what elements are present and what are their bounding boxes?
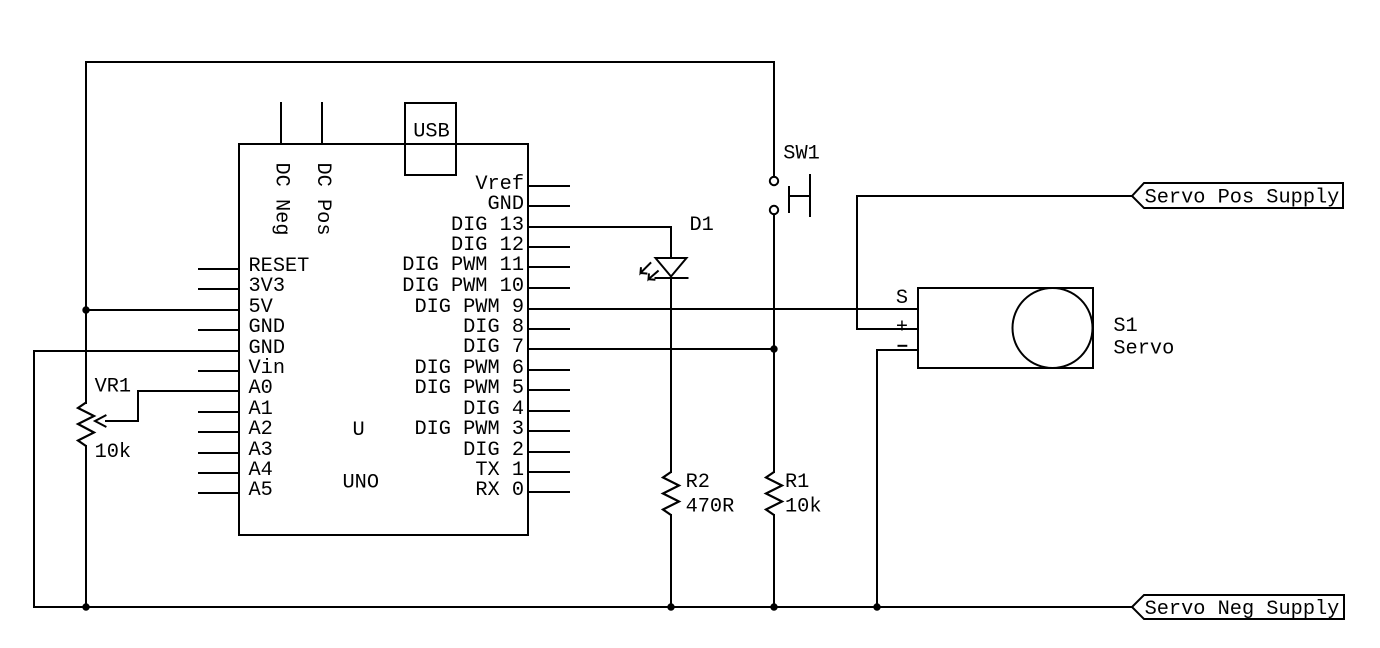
wire bottom rail (Servo Neg net)	[34, 606, 1132, 608]
pin stub A2	[199, 431, 239, 433]
pin stub A5	[199, 492, 239, 494]
pin stub RX 0	[528, 491, 569, 493]
switch SW1 stem	[789, 195, 810, 197]
wire to Servo Pos Supply flag	[857, 195, 1132, 197]
wire VR1 wiper horizontal	[106, 420, 138, 422]
junction dot VR1 bottom rail	[82, 603, 89, 610]
svg-text:DIG PWM 10: DIG PWM 10	[402, 275, 524, 298]
LED D1 emission arrow 1	[641, 263, 651, 273]
switch SW1 actuator bar	[809, 175, 811, 216]
svg-text:USB: USB	[413, 121, 450, 144]
pin stub DIG PWM 5	[528, 389, 569, 391]
pin stub DIG PWM 3	[528, 430, 569, 432]
svg-text:DIG PWM 5: DIG PWM 5	[414, 377, 524, 400]
wire VR1 bottom lead	[85, 446, 87, 607]
pin stub DIG 4	[528, 410, 569, 412]
LED D1 triangle	[656, 258, 687, 277]
svg-text:DC Neg: DC Neg	[270, 163, 293, 236]
pin stub DIG PWM 11	[528, 266, 569, 268]
svg-text:UNO: UNO	[343, 472, 380, 495]
svg-text:10k: 10k	[785, 496, 822, 519]
svg-text:R2: R2	[686, 471, 710, 494]
svg-text:GND: GND	[249, 316, 286, 339]
svg-text:D1: D1	[690, 214, 714, 237]
wire GND lower to far left rail	[34, 350, 239, 352]
wire far left rail vertical	[33, 351, 35, 607]
switch SW1 contact circle top	[770, 177, 778, 185]
junction dot servo - bottom rail	[873, 603, 880, 610]
wire DIG 13 to LED	[528, 227, 671, 258]
resistor R2 zigzag	[663, 472, 679, 515]
wire R1 bottom lead	[773, 515, 775, 607]
svg-text:Servo Neg Supply: Servo Neg Supply	[1145, 598, 1340, 621]
wire SW1 top lead	[773, 62, 775, 177]
svg-text:3V3: 3V3	[249, 275, 286, 298]
wire DIG PWM 9 to servo S	[528, 308, 918, 310]
resistor R1 zigzag	[766, 472, 782, 515]
junction dot 5V left rail	[82, 306, 89, 313]
LED D1 emission arrow 2	[649, 271, 658, 280]
wire VR1 wiper vertical	[137, 391, 139, 421]
svg-text:DIG PWM 11: DIG PWM 11	[402, 254, 524, 277]
pin stub A4	[199, 472, 239, 474]
pin stub 3V3	[199, 288, 239, 290]
svg-text:S: S	[896, 287, 908, 310]
svg-text:RX 0: RX 0	[475, 479, 524, 502]
svg-text:Servo: Servo	[1113, 338, 1174, 361]
LED D1 cathode bar	[656, 277, 688, 279]
wire servo - vertical to bottom rail	[876, 350, 878, 607]
pin stub Vin	[199, 370, 239, 372]
svg-text:GND: GND	[487, 193, 524, 216]
wire DIG 7 to SW1	[528, 348, 774, 350]
svg-text:A5: A5	[249, 479, 273, 502]
pin stub DC Pos	[321, 103, 323, 144]
wire 5V to left rail	[86, 309, 239, 311]
wire LED cathode to R2	[670, 278, 672, 472]
pin stub DIG 8	[528, 328, 569, 330]
pin stub Vref	[528, 185, 569, 187]
servo S1 body box	[918, 288, 1093, 368]
svg-text:10k: 10k	[95, 441, 132, 464]
svg-text:DIG 7: DIG 7	[463, 336, 524, 359]
wire SW1 bottom lead to R1	[773, 214, 775, 472]
pin stub RESET	[199, 268, 239, 270]
wire servo + pin	[857, 328, 918, 330]
pin stub DIG 12	[528, 246, 569, 248]
pin stub GND right	[528, 205, 569, 207]
wire R2 bottom lead	[670, 515, 672, 607]
junction dot SW1/DIG 7	[770, 345, 777, 352]
potentiometer VR1 zigzag	[78, 403, 94, 447]
svg-text:SW1: SW1	[783, 143, 820, 166]
svg-text:DIG PWM 3: DIG PWM 3	[414, 418, 524, 441]
svg-text:S1: S1	[1113, 315, 1137, 338]
wire servo pos supply vertical	[856, 196, 858, 329]
svg-text:VR1: VR1	[95, 376, 132, 399]
node Servo Pos Supply flag	[1132, 183, 1343, 208]
wire left rail vertical upper (5V net)	[85, 62, 87, 403]
svg-text:A0: A0	[249, 377, 273, 400]
pin stub DIG PWM 6	[528, 369, 569, 371]
wire A0 horizontal	[138, 390, 239, 392]
svg-text:470R: 470R	[686, 496, 735, 519]
switch SW1 bridge bar	[788, 187, 790, 212]
pin stub DIG 2	[528, 451, 569, 453]
wire top horizontal (5V to SW1)	[86, 61, 774, 63]
pin stub A3	[199, 452, 239, 454]
junction dot R2 bottom rail	[667, 603, 674, 610]
pin stub GND upper	[199, 329, 239, 331]
svg-text:R1: R1	[785, 471, 809, 494]
pin stub DC Neg	[280, 103, 282, 144]
node Servo Neg Supply flag	[1132, 595, 1344, 619]
Arduino U box	[239, 144, 528, 535]
USB port box	[405, 103, 456, 175]
pin stub DIG PWM 10	[528, 287, 569, 289]
pin stub TX 1	[528, 471, 569, 473]
svg-text:A2: A2	[249, 418, 273, 441]
servo S1 horn circle	[1013, 288, 1093, 368]
svg-text:DC Pos: DC Pos	[311, 163, 334, 236]
pin stub A1	[199, 411, 239, 413]
wire servo - pin	[877, 349, 918, 351]
VR1 wiper arrowhead	[95, 416, 106, 427]
junction dot R1 bottom rail	[770, 603, 777, 610]
svg-text:U: U	[353, 419, 365, 442]
pin label -	[899, 345, 907, 347]
svg-text:+: +	[896, 317, 908, 340]
svg-text:Servo Pos Supply: Servo Pos Supply	[1145, 187, 1340, 210]
switch SW1 contact circle bottom	[770, 206, 778, 214]
